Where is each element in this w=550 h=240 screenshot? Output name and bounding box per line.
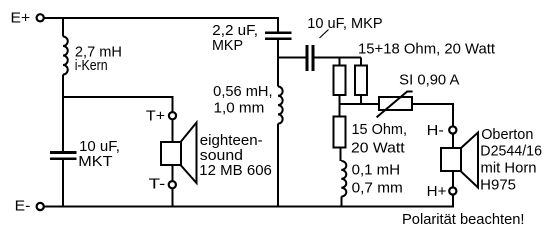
svg-text:15 Ohm,: 15 Ohm,: [352, 122, 408, 138]
svg-text:0,7 mm: 0,7 mm: [352, 180, 403, 196]
svg-text:15+18 Ohm, 20 Watt: 15+18 Ohm, 20 Watt: [358, 41, 495, 57]
svg-text:T-: T-: [149, 177, 166, 193]
wire resistor R1 top lead: [339, 58, 341, 66]
capacitor C3 10 uF MKP plates: [306, 45, 315, 71]
svg-text:0,1 mH: 0,1 mH: [352, 163, 401, 179]
svg-text:Oberton: Oberton: [481, 127, 533, 143]
speaker LS1 cone: [181, 123, 197, 184]
wire L2 bottom to rail: [277, 124, 279, 207]
wire left trunk upper segment: [62, 18, 64, 37]
wire mid node to 10uF MKP cap: [278, 57, 306, 59]
wire resistor R2 top lead: [360, 58, 362, 66]
terminal E-: [37, 203, 44, 210]
svg-text:1,0 mm: 1,0 mm: [214, 101, 265, 117]
svg-text:mit Horn: mit Horn: [481, 161, 537, 177]
svg-text:H-: H-: [427, 123, 444, 139]
svg-text:10 uF, MKP: 10 uF, MKP: [307, 16, 382, 32]
svg-text:MKT: MKT: [78, 154, 112, 170]
wire 2,2uF lower lead down to mid node: [277, 40, 279, 86]
wire bottom rail E- to H+ riser and fuse output: [44, 104, 453, 207]
inductor L2 0,56 mH: [278, 87, 283, 124]
wire branch to woofer T+: [63, 97, 173, 207]
svg-text:i-Kern: i-Kern: [75, 58, 108, 74]
svg-text:H975: H975: [480, 177, 516, 193]
svg-text:H+: H+: [427, 184, 447, 200]
label pointer line for 10 uF MKP: [320, 30, 329, 39]
svg-text:20 Watt: 20 Watt: [351, 141, 405, 157]
terminal E+: [37, 14, 44, 21]
resistor R3 15 Ohm 20 Watt: [334, 117, 346, 148]
wire resistor R2 bottom lead: [360, 95, 362, 104]
capacitor C2 2,2 uF MKP plates: [265, 32, 292, 41]
inductor L1 2,7 mH i-Kern: [63, 37, 68, 75]
svg-text:2,2 uF,: 2,2 uF,: [212, 23, 258, 39]
svg-text:eighteen-: eighteen-: [200, 133, 263, 149]
svg-text:12 MB 606: 12 MB 606: [199, 163, 272, 179]
svg-text:E+: E+: [11, 11, 31, 27]
wire R3 bottom to L3: [339, 148, 341, 162]
svg-text:E-: E-: [15, 198, 31, 214]
inductor L3 0,1 mH: [341, 161, 346, 197]
svg-text:D2544/16: D2544/16: [480, 143, 542, 159]
svg-text:SI 0,90 A: SI 0,90 A: [399, 72, 460, 88]
fuse F1 SI 0,90 A body: [379, 97, 412, 110]
resistor R1 15 Ohm parallel left: [334, 66, 346, 96]
fuse F1 diagonal stroke: [377, 92, 413, 118]
wire left trunk lower segment below C MKT: [62, 160, 64, 207]
svg-text:sound: sound: [200, 148, 243, 164]
wire L3 bottom to rail: [340, 197, 342, 207]
speaker LS2 box: [441, 148, 461, 171]
svg-text:0,56 mH,: 0,56 mH,: [213, 84, 272, 100]
capacitor C1 10 uF MKT plates: [50, 151, 77, 160]
speaker LS1 box: [161, 142, 181, 165]
speaker LS2 cone: [461, 133, 478, 188]
wire 10uF MKP cap to resistor taps: [315, 57, 362, 59]
svg-text:T+: T+: [146, 109, 165, 125]
terminal T-: [169, 181, 176, 188]
terminal H-: [449, 126, 456, 133]
wire resistor R1 bottom lead: [339, 95, 341, 104]
svg-text:10 uF,: 10 uF,: [79, 139, 120, 155]
wire left trunk mid segment: [62, 75, 64, 152]
wire top rail E+ to 2,2uF corner: [44, 18, 278, 32]
terminal H+: [449, 187, 456, 194]
wire R3 top lead: [339, 104, 341, 117]
svg-text:MKP: MKP: [212, 38, 243, 54]
svg-text:Polarität beachten!: Polarität beachten!: [402, 212, 525, 228]
wire resistor bottoms to fuse: [340, 103, 380, 105]
terminal T+: [169, 112, 176, 119]
resistor R2 18 Ohm parallel right: [355, 66, 367, 96]
